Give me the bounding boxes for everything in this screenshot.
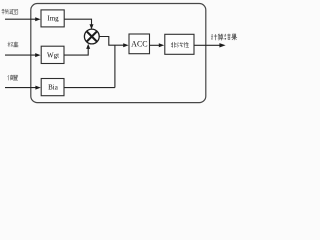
svg-text:Img: Img bbox=[47, 14, 59, 22]
svg-text:Wgt: Wgt bbox=[47, 51, 59, 59]
svg-text:ACC: ACC bbox=[131, 40, 147, 49]
svg-text:Bia: Bia bbox=[48, 84, 59, 92]
